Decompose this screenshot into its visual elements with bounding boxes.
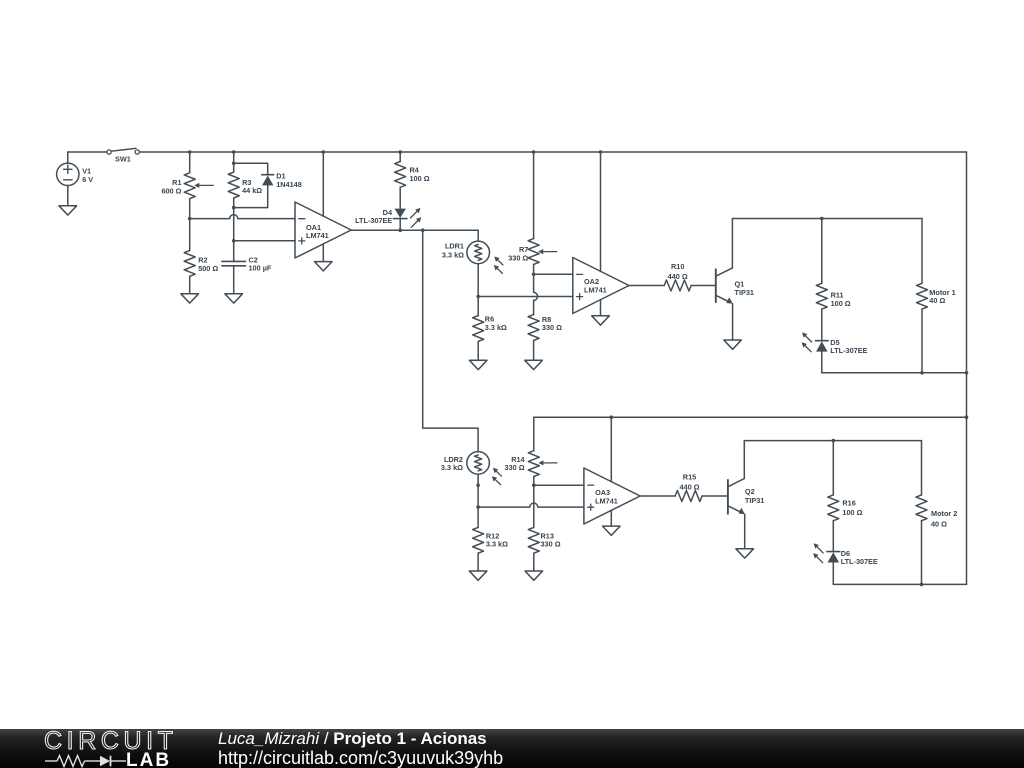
junction R3/D1 bottom — [232, 206, 236, 210]
ground R13 — [525, 571, 543, 580]
wire R13 to ground — [533, 553, 535, 571]
switch SW1 — [107, 148, 139, 154]
wire node A to OA1 inverting input (hop over node B) — [190, 215, 295, 219]
svg-text:R10: R10 — [671, 262, 684, 271]
wire to D1 anode branch — [234, 163, 268, 174]
junction R4 top on rail — [398, 150, 402, 154]
label R4 value — [410, 166, 430, 184]
wire Motor 1 to bottom rail — [921, 309, 923, 373]
resistor R4 — [395, 162, 406, 188]
wire rail to R1 — [189, 152, 191, 173]
label R8 value — [542, 315, 562, 332]
wire D1 to bottom node — [234, 185, 268, 207]
wire rail to Motor 1 — [921, 219, 923, 284]
svg-text:1N4148: 1N4148 — [276, 180, 302, 189]
wire node B to OA1 non-inverting input — [234, 240, 295, 242]
wire LDR2 to divider node — [477, 474, 479, 507]
wire stage2 bottom rail — [822, 372, 967, 374]
svg-text:Q2: Q2 — [745, 487, 755, 496]
label D6 value — [841, 549, 878, 566]
junction node B to OA1+ — [232, 239, 236, 243]
CircuitLab logo wordmark — [44, 727, 178, 756]
wire OA2 output to R10 — [629, 285, 664, 287]
wire right supply bus — [966, 152, 968, 584]
wire to R12 — [477, 507, 479, 527]
svg-text:40 Ω: 40 Ω — [929, 296, 945, 305]
wire rail to R16 — [832, 441, 834, 495]
junction branch to stage 2 — [421, 228, 425, 232]
label R1 value — [161, 178, 181, 195]
label R7 value — [508, 245, 528, 262]
svg-text:330 Ω: 330 Ω — [541, 540, 561, 549]
svg-text:3.3 kΩ: 3.3 kΩ — [486, 540, 508, 549]
label C2 value — [249, 255, 272, 272]
resistor R10 — [664, 280, 691, 291]
svg-text:330 Ω: 330 Ω — [505, 463, 525, 472]
wire OA3 output to R15 — [640, 495, 675, 497]
junction bottom rail to right bus — [965, 371, 969, 375]
wire V1 to switch — [68, 151, 107, 153]
svg-text:44 kΩ: 44 kΩ — [242, 186, 262, 195]
resistor R13 — [528, 527, 539, 553]
svg-text:330 Ω: 330 Ω — [508, 253, 528, 262]
label D4 value — [355, 208, 393, 225]
wire node B vertical — [233, 208, 235, 262]
wire D6 to bottom rail — [832, 563, 834, 585]
label R3 value — [242, 178, 262, 195]
label Motor 2 value — [931, 509, 957, 528]
resistor R16 — [828, 495, 839, 521]
junction R7 top on rail — [532, 150, 536, 154]
wire R4 to D4 — [399, 187, 401, 208]
junction R14/R13 divider — [532, 483, 536, 487]
photoresistor LDR2 — [467, 452, 502, 485]
op-amp OA3 — [584, 468, 640, 524]
resistor R12 — [473, 527, 484, 553]
wire rail to R4 — [399, 152, 401, 162]
label D1 value — [276, 172, 302, 189]
junction R7/R8 divider — [532, 273, 536, 277]
wire stage4 bottom rail — [833, 583, 966, 585]
transistor Q1 — [716, 268, 733, 304]
voltage source V1 — [57, 152, 79, 206]
wire LDR1 divider to OA2 non-inverting input — [478, 296, 573, 298]
wire OA1 V- pin to ground — [322, 244, 324, 262]
junction Motor 2 bottom — [920, 583, 924, 587]
wire OA1 output — [351, 229, 478, 231]
svg-text:500 Ω: 500 Ω — [198, 264, 218, 273]
label V1 value — [82, 166, 93, 184]
wire R15 to Q2 base — [702, 495, 727, 497]
svg-text:440 Ω: 440 Ω — [668, 272, 688, 281]
label Q2 — [745, 487, 764, 505]
wire R1 to node A — [189, 199, 191, 219]
wire rail2 to R14 — [533, 417, 535, 451]
ground OA3 — [603, 526, 621, 535]
transistor Q2 — [728, 479, 745, 515]
junction OA1 V+ on rail — [322, 150, 326, 154]
label OA2 — [584, 277, 607, 295]
footer title text — [218, 729, 487, 749]
wire R14 divider to OA3 inverting input — [534, 484, 584, 486]
junction LDR2/R12 divider — [476, 505, 480, 509]
svg-text:440 Ω: 440 Ω — [679, 482, 699, 491]
wire top supply rail — [139, 151, 966, 153]
svg-text:100 Ω: 100 Ω — [410, 174, 430, 183]
svg-text:R16: R16 — [842, 498, 855, 507]
wire Q1 collector rail — [732, 218, 922, 220]
svg-text:Motor 2: Motor 2 — [931, 509, 957, 518]
resistor R8 — [528, 315, 539, 341]
wire R3 top lead — [233, 163, 235, 172]
wire OA3 V+ pin — [610, 417, 612, 482]
footer url text — [218, 748, 503, 768]
svg-text:100 Ω: 100 Ω — [831, 299, 851, 308]
svg-text:R6: R6 — [485, 314, 494, 323]
ground R2 — [181, 294, 199, 303]
label R15 value — [679, 473, 699, 492]
wire R12 to ground — [477, 553, 479, 571]
svg-text:LTL-307EE: LTL-307EE — [841, 557, 878, 566]
wire OA1 output branch down to LDR2 — [423, 230, 478, 451]
svg-text:330 Ω: 330 Ω — [542, 323, 562, 332]
label R14 value — [505, 455, 526, 472]
junction LDR1/R6 divider — [476, 295, 480, 299]
wire Motor 2 to bottom rail — [921, 521, 923, 585]
wire R14 to divider node — [533, 477, 535, 486]
label LDR1 value — [442, 241, 464, 259]
label D5 value — [830, 338, 867, 355]
wire to R6 — [477, 297, 479, 316]
wire second supply rail — [534, 416, 967, 418]
ground Q1 — [724, 340, 742, 349]
wire rail to Motor 2 — [921, 441, 923, 495]
motor Motor 1 (load) — [917, 283, 928, 309]
svg-text:LTL-307EE: LTL-307EE — [355, 216, 392, 225]
LED D4 — [393, 208, 421, 227]
wire R10 to Q1 base — [691, 285, 715, 287]
wire output to LDR1 — [477, 230, 479, 241]
wire node A to R2 — [189, 219, 191, 251]
ground OA1 — [315, 262, 333, 271]
LED D5 — [802, 332, 829, 351]
svg-text:LM741: LM741 — [584, 285, 607, 294]
wire Q1 emitter to ground — [732, 304, 734, 340]
wire LDR1 to divider node — [477, 264, 479, 297]
wire D5 to bottom rail — [821, 352, 823, 373]
wire Q2 collector rail — [744, 440, 921, 442]
junction R16 top — [832, 439, 836, 443]
svg-text:SW1: SW1 — [115, 155, 131, 164]
wire R3 bottom lead — [233, 198, 235, 208]
resistor R2 — [184, 251, 195, 277]
label R11 value — [831, 291, 851, 308]
wire R8 to ground — [533, 340, 535, 360]
label LDR2 value — [441, 455, 463, 472]
wire R14 divider to R13 — [533, 485, 535, 527]
wire R16 to D6 — [832, 521, 834, 551]
wire OA2 V- pin to ground — [600, 300, 602, 316]
junction node A (R1 wiper divider) — [188, 217, 192, 221]
wire Q2 collector up — [743, 441, 745, 479]
svg-text:LTL-307EE: LTL-307EE — [830, 346, 867, 355]
svg-text:LM741: LM741 — [595, 496, 618, 505]
junction OA2 V+ on rail — [599, 150, 603, 154]
wire OA2 V+ pin — [600, 152, 602, 271]
resistor R3 — [228, 172, 239, 198]
photoresistor LDR1 — [467, 241, 503, 273]
wire Q2 emitter to ground — [744, 514, 746, 549]
svg-text:40 Ω: 40 Ω — [931, 519, 947, 528]
label R12 value — [486, 532, 508, 549]
resistor R1 (potentiometer) — [184, 173, 213, 199]
resistor R6 — [473, 316, 484, 342]
resistor R11 — [816, 283, 827, 309]
svg-text:600 Ω: 600 Ω — [161, 186, 181, 195]
svg-text:R15: R15 — [683, 473, 696, 482]
svg-text:6 V: 6 V — [82, 175, 93, 184]
junction R1 top on rail — [188, 150, 192, 154]
wire D4 to output node — [399, 219, 401, 231]
ground R6 — [469, 360, 487, 369]
junction D4 on OA1 output — [398, 228, 402, 232]
resistor R15 — [675, 491, 702, 502]
ground C2 — [225, 294, 243, 303]
CircuitLab logo resistor-diode glyph — [44, 754, 174, 768]
wire OA3 V- pin to ground — [610, 510, 612, 526]
junction rail2 to right bus — [965, 415, 969, 419]
label R6 value — [485, 314, 507, 332]
op-amp OA1 — [295, 202, 351, 258]
label R10 value — [668, 262, 688, 281]
junction OA3 V+ on rail2 — [610, 415, 614, 419]
wire rail to R11 — [821, 219, 823, 284]
ground OA2 — [592, 316, 610, 325]
wire R11 to D5 — [821, 309, 823, 340]
wire C2 to ground — [233, 266, 235, 294]
junction R3/D1 top — [232, 162, 236, 166]
ground R12 — [469, 571, 487, 580]
label OA3 — [595, 488, 618, 506]
op-amp OA2 — [573, 258, 629, 314]
resistor R14 (potentiometer) — [528, 451, 557, 477]
svg-text:3.3 kΩ: 3.3 kΩ — [485, 323, 507, 332]
label Q1 — [735, 280, 754, 298]
label R2 value — [198, 256, 218, 273]
wire R2 to ground — [189, 276, 191, 294]
svg-text:3.3 kΩ: 3.3 kΩ — [442, 250, 464, 259]
ground V1 — [59, 206, 77, 215]
svg-text:LM741: LM741 — [306, 231, 329, 240]
wire R7/R8 vertical (hop over LDR1 wire) — [534, 274, 538, 314]
resistor R7 (potentiometer) — [528, 239, 557, 265]
wire OA1 V+ pin — [322, 152, 324, 216]
label R16 value — [842, 498, 862, 517]
wire Q1 collector up — [731, 219, 733, 268]
wire LDR2 divider to OA3 non-inverting input (hop over R13 wire) — [478, 503, 584, 507]
ground R8 — [525, 360, 543, 369]
wire R7 to divider node — [533, 264, 535, 274]
LED D6 — [813, 543, 840, 562]
motor Motor 2 (load) — [916, 495, 927, 521]
capacitor C2 — [222, 261, 246, 265]
ground Q2 — [736, 549, 754, 558]
junction Motor 1 bottom — [920, 371, 924, 375]
junction LDR2 pin — [476, 483, 480, 487]
diode D1 — [262, 175, 274, 186]
svg-text:TIP31: TIP31 — [735, 288, 754, 297]
wire R7 divider to OA2 inverting input — [534, 273, 573, 275]
label SW1 — [115, 155, 131, 164]
svg-text:3.3 kΩ: 3.3 kΩ — [441, 463, 463, 472]
svg-text:100 µF: 100 µF — [249, 264, 272, 273]
svg-text:TIP31: TIP31 — [745, 496, 764, 505]
junction R11 top — [820, 217, 824, 221]
wire R6 to ground — [477, 341, 479, 360]
label Motor 1 value — [929, 288, 955, 305]
junction R3 top on rail — [232, 150, 236, 154]
label R13 value — [541, 531, 561, 548]
svg-text:100 Ω: 100 Ω — [842, 508, 862, 517]
wire rail to R7 — [533, 152, 535, 239]
label OA1 — [306, 223, 329, 240]
wire rail to R3 node — [233, 152, 235, 163]
svg-text:LDR1: LDR1 — [445, 241, 464, 250]
